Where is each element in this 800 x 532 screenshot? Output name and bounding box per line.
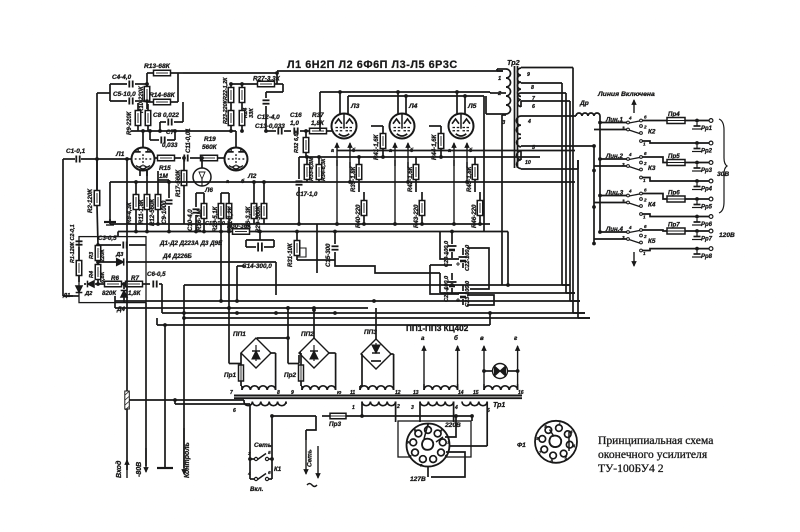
svg-text:С8 0,022: С8 0,022	[153, 112, 179, 119]
Tr1 winding 11-12	[350, 386, 401, 396]
resistor R11-1,8K	[139, 171, 150, 232]
label Tr1	[493, 402, 505, 409]
svg-text:С16: С16	[290, 112, 302, 119]
resistor R34-6,3K	[316, 157, 327, 182]
fuse Pr3	[329, 413, 346, 428]
svg-text:Рр2: Рр2	[701, 149, 713, 155]
svg-text:а: а	[331, 148, 334, 154]
svg-text:С21-100,0: С21-100,0	[444, 275, 450, 302]
svg-text:1: 1	[643, 178, 646, 183]
capacitor C13-0,033	[255, 112, 291, 135]
svg-text:К4: К4	[648, 202, 656, 209]
Tr1 winding 13-14	[413, 384, 464, 396]
svg-text:1,0: 1,0	[290, 120, 299, 127]
svg-text:Пр1: Пр1	[224, 372, 237, 379]
switch Lin4 K5	[594, 224, 660, 256]
svg-text:Л1: Л1	[115, 151, 125, 158]
svg-text:R2-120К: R2-120К	[87, 188, 94, 213]
svg-text:Пр4: Пр4	[668, 111, 680, 118]
anode bus y96	[348, 94, 484, 98]
svg-text:С9-1000: С9-1000	[161, 200, 168, 224]
svg-text:R4: R4	[89, 270, 95, 278]
svg-text:Пр7: Пр7	[668, 222, 680, 229]
svg-text:0,033: 0,033	[162, 142, 178, 149]
electrolytic C21-100,0	[444, 273, 457, 302]
resistor R33-6,8M	[304, 157, 315, 182]
capacitor C7 0.033	[150, 129, 178, 149]
bus y325	[157, 313, 490, 325]
svg-text:R16-1М: R16-1М	[196, 208, 203, 231]
svg-text:Рр1: Рр1	[701, 126, 713, 132]
wire mid step	[297, 260, 440, 273]
svg-text:R41-1,6К: R41-1,6К	[373, 133, 380, 160]
tube L6	[193, 156, 213, 194]
svg-text:6: 6	[644, 151, 647, 156]
svg-text:4: 4	[628, 152, 632, 157]
svg-text:R33-6,8М: R33-6,8М	[309, 157, 315, 181]
svg-text:1,8К: 1,8К	[311, 120, 325, 127]
Tr2 secondary 5-10	[517, 138, 594, 169]
svg-text:R37: R37	[312, 112, 324, 119]
diode types text	[159, 240, 223, 260]
bus y301	[115, 296, 580, 303]
svg-text:Д1-Д2 Д223А Д3 Д9Е: Д1-Д2 Д223А Д3 Д9Е	[159, 240, 223, 247]
svg-text:Пр3: Пр3	[329, 421, 342, 428]
svg-text:R13-68К: R13-68К	[144, 63, 171, 70]
svg-text:6: 6	[233, 408, 236, 414]
resistor R24-33K	[239, 84, 249, 118]
svg-text:10: 10	[525, 160, 531, 166]
diode D2	[84, 281, 98, 297]
capacitor C4-4.0	[110, 74, 147, 88]
resistor R46-220	[471, 192, 483, 228]
resistor R22-1,2K	[223, 77, 234, 124]
resistor R41-1,6K	[371, 126, 386, 160]
label Linia vklyuchena	[597, 91, 655, 98]
resistor R31-10K	[287, 230, 306, 267]
label 127V	[410, 476, 426, 483]
label Set2	[307, 449, 314, 467]
wire PP1 corners	[271, 353, 276, 386]
return line K4	[642, 214, 712, 218]
svg-text:ПП2: ПП2	[301, 331, 314, 338]
svg-text:9: 9	[527, 72, 530, 78]
svg-text:8: 8	[531, 85, 534, 91]
svg-text:R20-5,1К: R20-5,1К	[212, 205, 219, 232]
caption	[598, 434, 713, 475]
svg-text:С13-0,033: С13-0,033	[255, 123, 285, 130]
svg-text:Рр4: Рр4	[701, 187, 713, 193]
svg-text:С5-10,0: С5-10,0	[113, 91, 136, 98]
wire PP3 corners	[361, 354, 394, 386]
Tr1 winding 3-4	[411, 402, 458, 423]
resistor R14-68K	[147, 73, 178, 105]
arrester Pp5	[692, 201, 713, 211]
svg-text:С4-4,0: С4-4,0	[112, 74, 132, 81]
wire input C1 line	[63, 158, 132, 160]
label PP1-PP3 KTs402	[406, 324, 469, 333]
svg-text:Л4: Л4	[408, 103, 418, 110]
fuse Pr5 output line	[660, 153, 713, 166]
wire B+ verticals left of Tr2	[484, 92, 506, 285]
svg-text:С11-0,01: С11-0,01	[185, 128, 192, 153]
terminal -80V	[136, 448, 148, 477]
brace 30V	[717, 119, 729, 213]
wire anode junction y131	[131, 84, 236, 133]
svg-text:6: 6	[644, 188, 647, 193]
wire PP2 corners	[329, 353, 336, 386]
svg-text:2: 2	[643, 198, 647, 203]
svg-text:1М: 1М	[159, 173, 169, 180]
fuse Pr7 output line	[660, 222, 713, 235]
capacitor C8 0.022	[153, 102, 183, 131]
resistor R3 220K	[89, 245, 106, 263]
wire Vhod vertical	[125, 157, 129, 470]
svg-text:3: 3	[248, 451, 251, 457]
wire D3 out y262	[146, 261, 276, 263]
svg-text:R39-1,8К: R39-1,8К	[350, 165, 357, 192]
resistor R7 1,8K	[122, 275, 150, 297]
ground under L1 bus	[104, 219, 116, 225]
title tubes	[287, 59, 458, 71]
switch Lin1 K2	[594, 115, 660, 147]
wire Kontrol vertical	[183, 285, 185, 468]
svg-text:Др: Др	[579, 100, 589, 107]
wire second feed vertical	[592, 144, 596, 245]
socket 220/127	[407, 423, 451, 468]
svg-text:4: 4	[527, 119, 531, 125]
wire mains area	[220, 404, 472, 418]
terminal Kontrol	[182, 428, 191, 478]
svg-text:Л5: Л5	[467, 103, 477, 110]
capacitor C2-0,1	[63, 224, 83, 296]
resistor R10-220K	[139, 82, 150, 113]
diode D4	[116, 282, 127, 313]
lamp	[482, 364, 519, 379]
electrolytic C20-100,0	[444, 230, 457, 267]
svg-text:1: 1	[498, 76, 501, 82]
svg-text:К3: К3	[648, 165, 656, 172]
svg-text:Д4: Д4	[116, 306, 125, 313]
svg-text:2: 2	[643, 161, 647, 166]
resistor R45-1,8K	[466, 157, 478, 192]
bus y313	[162, 311, 585, 315]
electrolytic C22-100,0	[456, 244, 471, 271]
svg-text:а: а	[421, 335, 425, 342]
tube Л5	[449, 103, 477, 139]
svg-text:220К: 220К	[100, 249, 106, 263]
tube L2	[225, 131, 257, 185]
Tr2 core	[515, 66, 518, 168]
wire bundle to buses	[562, 285, 590, 318]
svg-text:Тр2: Тр2	[507, 58, 520, 67]
capacitor C5-10.0	[97, 84, 147, 190]
svg-text:33К: 33К	[249, 108, 255, 118]
resistor R42-1,6K	[407, 157, 419, 192]
svg-text:С6-0,5: С6-0,5	[147, 271, 166, 278]
svg-text:Д4 Д226Б: Д4 Д226Б	[162, 253, 192, 260]
rectifier PP2	[299, 308, 329, 368]
wire Л3 anode leads	[340, 92, 348, 114]
svg-text:5: 5	[268, 450, 271, 456]
wire Л4 anode leads	[398, 92, 406, 114]
fuse Pr2	[284, 353, 304, 386]
svg-text:Д2: Д2	[84, 291, 93, 297]
svg-text:Тр1: Тр1	[493, 402, 505, 409]
fuse Pr1	[224, 353, 244, 386]
svg-text:Пр2: Пр2	[284, 372, 297, 379]
svg-text:2: 2	[643, 234, 647, 239]
svg-text:R27-3,3К: R27-3,3К	[253, 76, 281, 83]
label C19	[205, 221, 226, 227]
resistor R16-1M	[196, 193, 207, 232]
capacitor C9-1000	[158, 180, 173, 232]
svg-text:Принципиальная схема: Принципиальная схема	[598, 434, 713, 447]
label Set1	[254, 442, 272, 449]
terminal b	[454, 335, 460, 384]
limiter box outline	[79, 237, 146, 303]
svg-text:2: 2	[396, 404, 400, 410]
resistor R25-33K	[239, 108, 255, 133]
bus y224	[110, 222, 490, 226]
resistor R26-3,3K	[245, 182, 257, 232]
svg-text:Вкл.: Вкл.	[250, 486, 264, 493]
svg-text:Линия Включена: Линия Включена	[597, 91, 655, 98]
resistor R21-1,2K	[221, 193, 241, 364]
fuse Pr4 output line	[660, 111, 713, 124]
resistor R44-1,6K	[429, 126, 444, 160]
resistor R15-1M	[155, 155, 181, 180]
bus y150	[337, 150, 575, 152]
arrester Pp2	[692, 145, 713, 155]
wire y400 to Tr1	[129, 398, 244, 404]
svg-text:R44-1,6К: R44-1,6К	[431, 133, 438, 160]
svg-text:Сеть: Сеть	[254, 442, 272, 449]
arrow below Lin4	[632, 252, 636, 266]
svg-text:С12-4,0: С12-4,0	[257, 114, 280, 121]
arrester Pp3	[692, 165, 713, 175]
tube Л3	[332, 103, 360, 139]
svg-text:Пр5: Пр5	[668, 153, 680, 160]
svg-text:7: 7	[230, 390, 233, 396]
wire Л5 cathode leads	[448, 143, 473, 224]
resistor R32 6,8K	[294, 129, 309, 157]
switch Lin3 K4	[594, 188, 660, 220]
svg-text:820К: 820К	[102, 290, 117, 297]
svg-text:120В: 120В	[719, 232, 735, 239]
svg-text:4: 4	[628, 189, 632, 194]
wire top bus	[183, 71, 503, 84]
capacitor C12-4,0	[257, 92, 283, 121]
label 220V	[444, 422, 461, 429]
svg-text:1: 1	[643, 142, 646, 147]
grid bus y157	[299, 155, 540, 159]
socket box 127/220	[398, 421, 471, 457]
svg-text:R15: R15	[159, 165, 171, 172]
svg-text:С20-100,0: С20-100,0	[444, 240, 450, 267]
socket F1	[517, 421, 577, 463]
svg-text:R14-68К: R14-68К	[149, 92, 176, 99]
resistor R20-5,1K	[212, 193, 224, 301]
wire Л5 anode leads	[457, 92, 465, 114]
svg-text:ПП1: ПП1	[233, 331, 246, 338]
svg-text:R11-1,8К: R11-1,8К	[139, 198, 145, 224]
return line K3	[642, 178, 712, 183]
diode D3	[96, 252, 146, 266]
svg-text:С10-4,0: С10-4,0	[187, 209, 194, 231]
Tr2 primary	[486, 69, 511, 126]
resistor R39-1,8K	[350, 157, 362, 192]
arrester Pp6	[692, 219, 713, 229]
wire Л4 cathode leads	[389, 143, 414, 224]
svg-text:4: 4	[628, 116, 632, 121]
svg-text:С14-300,0: С14-300,0	[242, 263, 272, 270]
terminal v	[480, 335, 486, 384]
svg-text:6: 6	[268, 470, 271, 476]
svg-text:Пр6: Пр6	[668, 190, 680, 197]
capacitor C14-300,0	[242, 230, 274, 270]
svg-text:Рр3: Рр3	[701, 168, 713, 174]
Tr1 winding 5	[462, 402, 490, 447]
resistor R19-560K	[190, 136, 224, 161]
capacitor C16 1,0	[290, 112, 309, 135]
svg-text:С3-0,5: С3-0,5	[98, 235, 117, 242]
switch Lin2 K3	[594, 151, 660, 183]
svg-text:1: 1	[643, 215, 646, 220]
svg-text:Рр5: Рр5	[701, 205, 713, 211]
svg-text:в: в	[480, 335, 484, 342]
svg-text:Л3: Л3	[350, 103, 360, 110]
arrester Pp8	[692, 251, 713, 261]
tube Л4	[390, 103, 418, 139]
capacitor C11-0,01	[184, 128, 192, 162]
capacitor C1-0.1	[66, 148, 86, 163]
Tr1 winding 6	[233, 400, 286, 414]
resistor R12a 220K	[145, 104, 151, 131]
resistor R8-4,3K	[127, 182, 139, 232]
Tr1 winding 9-10	[291, 386, 342, 396]
Tr1 core	[234, 396, 522, 399]
wire L1 cathode	[136, 170, 147, 182]
capacitor C17-1,0	[296, 157, 319, 224]
svg-text:4: 4	[247, 471, 251, 477]
svg-text:R42-1,6К: R42-1,6К	[407, 165, 414, 192]
wire bundle verticals	[562, 68, 578, 319]
svg-text:Л1 6Н2П Л2 6Ф6П Л3-Л5 6Р3С: Л1 6Н2П Л2 6Ф6П Л3-Л5 6Р3С	[287, 59, 458, 71]
return line K5	[642, 247, 712, 251]
mains terminal arrows	[304, 416, 320, 487]
wire left vertical	[63, 159, 73, 296]
svg-text:30В: 30В	[717, 171, 729, 178]
Tr1 winding 15-16	[473, 384, 524, 396]
svg-text:220В: 220В	[444, 422, 461, 429]
bus y293	[440, 273, 575, 293]
tube L1	[115, 148, 155, 171]
fuse Pr6 output line	[660, 190, 713, 203]
svg-text:6: 6	[644, 115, 647, 120]
Tr2 secondary 7-6	[518, 93, 570, 110]
label 120V	[719, 232, 735, 239]
resistor R29-560K	[255, 182, 267, 233]
svg-text:R34-6,3К: R34-6,3К	[321, 158, 327, 181]
svg-text:R45-1,8К: R45-1,8К	[466, 165, 473, 192]
resistor R30-30K	[227, 223, 252, 234]
resistor R2-120K	[87, 157, 100, 245]
svg-text:-80В: -80В	[136, 462, 143, 477]
svg-text:R19: R19	[204, 136, 216, 143]
resistor R13-68K	[144, 63, 183, 86]
svg-text:R10-220К: R10-220К	[139, 85, 145, 113]
svg-text:1: 1	[352, 405, 355, 411]
transformer Tr2 label	[507, 58, 520, 67]
svg-text:R6: R6	[111, 275, 119, 282]
resistor R17-560K	[175, 156, 187, 224]
resistor R40-220	[355, 192, 367, 228]
bus y231	[118, 230, 508, 285]
svg-text:ТУ-100БУ4 2: ТУ-100БУ4 2	[598, 462, 664, 475]
svg-text:Сеть: Сеть	[307, 449, 314, 467]
capacitor C15-300	[325, 230, 339, 267]
wire -80V vertical	[145, 303, 147, 466]
Tr1 winding 1-2	[352, 402, 400, 423]
wire common feed vertical	[598, 116, 602, 234]
svg-text:4: 4	[628, 225, 632, 230]
svg-text:С1-0,1: С1-0,1	[66, 148, 86, 155]
Tr2 secondary 4	[516, 116, 576, 134]
svg-text:Рр8: Рр8	[701, 254, 713, 260]
svg-text:6: 6	[532, 104, 535, 110]
resistor R4 6,8K	[89, 262, 106, 284]
svg-text:Контроль: Контроль	[184, 442, 191, 478]
cathode bus y182	[110, 180, 575, 184]
choke Dr	[576, 100, 600, 116]
Tr2 secondary 9-8	[517, 68, 573, 97]
svg-text:б: б	[454, 335, 458, 342]
svg-text:R3: R3	[89, 251, 95, 259]
rectifier PP3	[361, 308, 391, 369]
resistor R43-220	[413, 192, 425, 228]
wire Л3 cathode leads	[331, 143, 356, 224]
svg-text:ПП1-ПП3 КЦ402: ПП1-ПП3 КЦ402	[406, 324, 469, 333]
svg-text:2: 2	[643, 125, 647, 130]
svg-text:Рр7: Рр7	[701, 237, 713, 243]
svg-text:127В: 127В	[410, 476, 426, 483]
svg-text:Л6: Л6	[204, 187, 213, 194]
diode D1	[62, 286, 82, 299]
svg-text:К1: К1	[274, 466, 282, 473]
svg-text:4: 4	[454, 405, 458, 411]
svg-text:6: 6	[644, 224, 647, 229]
Tr1 winding 7-8	[230, 386, 280, 396]
svg-text:R7: R7	[131, 275, 139, 282]
arrester Pp4	[692, 183, 713, 193]
svg-text:R1-120К С2-0,1: R1-120К С2-0,1	[70, 224, 76, 263]
svg-text:С7: С7	[166, 129, 174, 136]
socket wires	[428, 414, 487, 477]
resistor R1-120K	[76, 247, 82, 282]
connector hatch	[125, 391, 130, 410]
terminal a	[421, 335, 426, 384]
svg-text:560К: 560К	[202, 144, 218, 151]
resistor R37 1,8K	[310, 112, 333, 134]
bus y285	[184, 283, 570, 287]
svg-text:R8-4,3К: R8-4,3К	[127, 201, 133, 224]
arrow linia	[632, 100, 636, 113]
svg-text:С15-300: С15-300	[325, 243, 332, 267]
ground bottom-left	[157, 323, 173, 468]
resistor R9-220K	[127, 103, 141, 135]
svg-text:1: 1	[643, 251, 646, 256]
